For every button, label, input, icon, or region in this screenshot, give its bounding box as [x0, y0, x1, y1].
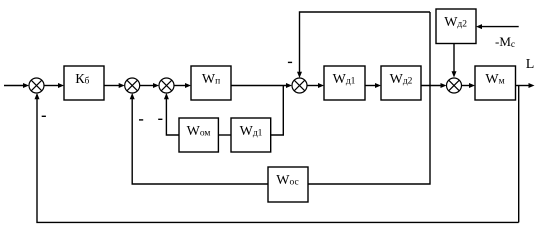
wire S5 to W_m: [462, 83, 476, 88]
block W_d2 top: [436, 9, 476, 44]
svg-text:Wп: Wп: [202, 72, 220, 87]
wire S4 to W_d1: [307, 83, 324, 88]
wire W_d2 top to S5: [452, 44, 457, 78]
block W_d2 main: [381, 66, 421, 100]
wire node X vertical feedback line: [308, 12, 430, 184]
block W_d1 main: [324, 66, 365, 100]
summing junction S4: [292, 78, 307, 93]
block W_om: [179, 118, 218, 152]
minus sign at S2: [139, 119, 143, 121]
wire S2 to S3: [140, 83, 159, 88]
wire W_d1 to W_d2: [365, 83, 381, 88]
wire top feedback from node X to S4: [297, 12, 430, 78]
svg-text:Wд2: Wд2: [444, 15, 467, 30]
block W_d1 feedback: [231, 118, 271, 152]
svg-text:Wом: Wом: [187, 124, 211, 139]
minus sign at S3: [158, 118, 162, 120]
wire K_b to S2: [104, 83, 125, 88]
minus sign at S1: [42, 115, 46, 117]
svg-text:L: L: [526, 57, 535, 72]
block W_p: [191, 66, 231, 100]
svg-text:-Мс: -Мс: [495, 34, 515, 50]
block W_oc: [268, 167, 308, 202]
wire W_d1 feedback to W_om: [218, 134, 231, 136]
wire S1 to K_b: [44, 83, 64, 88]
summing junction S2: [125, 78, 140, 93]
minus sign at S4: [288, 61, 292, 63]
svg-text:Кб: Кб: [75, 72, 89, 87]
wire W_p to S4: [231, 83, 292, 88]
wire S3 to W_p: [174, 83, 191, 88]
summing junction S3: [159, 78, 174, 93]
wire -Mc input arrow to W_d2 top: [476, 24, 519, 29]
svg-text:Wд1: Wд1: [240, 124, 263, 139]
summing junction S5: [447, 78, 462, 93]
wire branch down to feedback W_d1: [271, 86, 284, 136]
svg-text:Wм: Wм: [485, 72, 504, 87]
svg-text:Wд1: Wд1: [333, 72, 356, 87]
svg-text:Wос: Wос: [276, 173, 298, 188]
wire outer loop bottom to S1: [35, 93, 519, 222]
svg-text:Wд2: Wд2: [390, 72, 413, 87]
wire outer loop pickup down right side: [518, 86, 520, 223]
summing junction S1: [29, 78, 44, 93]
wire W_d2 to S5 through node X: [421, 83, 447, 88]
wire output arrow with L: [516, 83, 535, 88]
wire input arrow to S1: [4, 83, 29, 88]
wire W_om to S3: [164, 93, 179, 135]
block K_b: [64, 66, 104, 100]
wire W_oc to S2: [130, 93, 268, 184]
block W_m: [475, 66, 516, 100]
